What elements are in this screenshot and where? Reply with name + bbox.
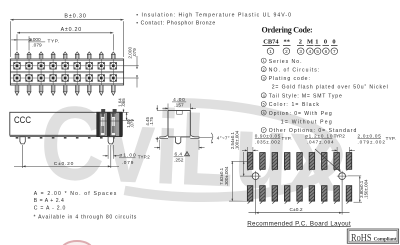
top view pin column 8 (tails and pads) [98, 52, 105, 95]
dim ø1.2±0.10 TYP.2/.047±.004 peg hole dia [305, 133, 345, 172]
PCB layout pads row 1 [247, 153, 351, 170]
svg-text:.035±.002: .035±.002 [255, 139, 280, 144]
top view pin column 3 (tails and pads) [38, 52, 45, 95]
top view pin column 5 (tails and pads) [62, 52, 69, 95]
front view marking CCC [14, 115, 31, 126]
dimension 1.64/.065 contact height [118, 98, 129, 113]
svg-text:B±0.30: B±0.30 [64, 14, 85, 20]
svg-text:NO. of Circuits:: NO. of Circuits: [269, 67, 320, 73]
svg-text:TYP.: TYP. [282, 136, 292, 141]
front view peg right [108, 137, 113, 144]
svg-text:.157: .157 [174, 102, 184, 108]
svg-text:3: 3 [299, 49, 302, 54]
PCB peg hole right [337, 171, 347, 181]
svg-text:4: 4 [309, 49, 312, 54]
svg-text:.079: .079 [32, 42, 42, 48]
dimension 2.000/.079 TYP pitch [11, 36, 59, 50]
svg-text:1: 1 [269, 49, 272, 54]
spec bullet contact [136, 21, 215, 27]
svg-text:.065: .065 [121, 98, 126, 107]
svg-text:7: 7 [333, 49, 336, 54]
svg-text:1: 1 [315, 39, 318, 46]
svg-text:TYP.: TYP. [48, 39, 60, 45]
top view connector body [10, 59, 123, 85]
dimension B±0.30 overall length [10, 14, 123, 57]
svg-text:TYP.2: TYP.2 [138, 155, 150, 160]
red ink stamp arc (cut off at bottom edge) [62, 241, 93, 245]
svg-text:C = A - 2.0: C = A - 2.0 [34, 206, 66, 212]
ordering code string CB74 ** 2 M 1 0 0 [263, 39, 338, 46]
PCB layout pads row 2 [247, 186, 351, 201]
formula B [34, 198, 64, 204]
dim 0.90±0.05/.035±.002 TYP pad width [242, 133, 292, 152]
svg-text:4°~7°: 4°~7° [217, 135, 230, 140]
top view pin column 9 (tails and pads) [110, 52, 117, 95]
svg-text:6: 6 [325, 49, 328, 54]
formula C [34, 206, 66, 212]
draft angle 4°~7° [199, 133, 230, 144]
dim 7.62±0.1/.300±.004 row spacing [219, 161, 248, 201]
svg-text:CB74: CB74 [263, 39, 279, 46]
svg-text:2: 2 [263, 68, 265, 72]
front view solder feet [16, 137, 115, 139]
svg-text:A±0.20: A±0.20 [61, 27, 82, 33]
svg-text:Series No.: Series No. [269, 59, 302, 65]
svg-text:.047±.004: .047±.004 [307, 139, 334, 144]
dimension 4.00/.157 side width [162, 97, 196, 110]
note available circuits [34, 215, 137, 221]
svg-text:C±0.2: C±0.2 [290, 207, 303, 213]
svg-text:B = A + 2.4: B = A + 2.4 [34, 198, 64, 204]
front view peg left [20, 137, 25, 144]
svg-text:Option: 0= With Peg: Option: 0= With Peg [269, 111, 332, 117]
svg-text:M: M [307, 39, 313, 46]
svg-text:0: 0 [324, 39, 327, 46]
side view peg [175, 137, 180, 144]
svg-text:TYP.2: TYP.2 [334, 133, 346, 138]
svg-text:.079: .079 [132, 48, 137, 58]
svg-text:.100±.004: .100±.004 [235, 130, 240, 150]
ordering code title [262, 25, 313, 34]
svg-text:.079: .079 [122, 160, 134, 165]
side view SMT lead left [160, 135, 168, 138]
dim 3.80±0.1/.150±.004 hole-to-pad-end [348, 176, 369, 202]
svg-text:Tail Style: M= SMT Type: Tail Style: M= SMT Type [269, 94, 342, 100]
watermark CviLux logo ellipse ring [124, 101, 339, 202]
dim 2.0±0.05/.079±.002 TYP pad pitch [332, 133, 396, 152]
svg-text:Ordering Code:: Ordering Code: [262, 25, 313, 34]
dimension 2.000/.079 row spacing (right) [124, 47, 139, 88]
top view pin column 6 (tails and pads) [74, 52, 81, 95]
svg-text:* Available in 4 through 80 ci: * Available in 4 through 80 circuits [34, 215, 137, 221]
top view pin column 2 (tails and pads) [26, 52, 33, 95]
svg-text:TYP.: TYP. [386, 136, 396, 141]
svg-text:1: 1 [186, 152, 188, 156]
svg-text:1: 1 [263, 59, 265, 63]
top view row centerlines [10, 66, 123, 78]
svg-text:.175: .175 [149, 117, 154, 126]
svg-text:ø1.2±0.10: ø1.2±0.10 [305, 133, 333, 138]
PCB pad hatch [248, 152, 352, 203]
RoHS Compliant stamp [347, 229, 398, 244]
front view connector body [10, 112, 123, 136]
svg-text:.150±.004: .150±.004 [363, 179, 368, 199]
svg-text:3: 3 [263, 77, 265, 81]
dim C±0.2 hole spacing [249, 181, 350, 215]
dim 2.54±0.1/.100±.004 row-to-hole [230, 130, 252, 176]
svg-text:2.0±0.05: 2.0±0.05 [358, 133, 382, 138]
svg-text:• Insulation: High Temperature: • Insulation: High Temperature Plastic U… [136, 13, 291, 19]
side view body outline [168, 111, 190, 137]
svg-text:CCC: CCC [14, 115, 31, 126]
spec bullet insulation [136, 13, 291, 19]
svg-text:Recommended P.C. Board Layout: Recommended P.C. Board Layout [247, 220, 351, 227]
svg-text:5: 5 [316, 49, 319, 54]
svg-text:.079±.002: .079±.002 [358, 139, 386, 144]
top view pin column 1 (tails and pads) [14, 52, 21, 95]
svg-text:RoHS: RoHS [351, 232, 372, 244]
svg-text:2: 2 [299, 39, 302, 46]
watermark CviLux logo text [38, 84, 341, 214]
svg-text:Color: 1= Black: Color: 1= Black [269, 102, 320, 108]
ordering code circled digits [267, 48, 337, 55]
svg-text:ø1.00: ø1.00 [119, 152, 136, 157]
top view pin column 7 (tails and pads) [86, 52, 93, 95]
svg-text:6: 6 [263, 111, 265, 115]
svg-text:Compliant: Compliant [374, 236, 397, 242]
dimension 1.00/.079 contact depth [122, 112, 134, 127]
svg-text:2: 2 [285, 49, 288, 54]
svg-text:0: 0 [332, 39, 335, 46]
dimension C±0.20 peg spacing [14, 145, 119, 168]
front view contact cluster (right end) [97, 109, 122, 137]
svg-text:0.90±0.05: 0.90±0.05 [255, 133, 281, 138]
svg-text:7: 7 [263, 129, 265, 133]
formula A [34, 191, 117, 197]
svg-text:**: ** [284, 39, 290, 46]
PCB peg hole left [250, 171, 260, 181]
dimension 6.4/.252 base width with rev triangle [154, 140, 204, 164]
svg-text:5: 5 [263, 103, 265, 107]
svg-text:1= Without Peg: 1= Without Peg [281, 120, 332, 126]
svg-text:• Contact: Phosphor Bronze: • Contact: Phosphor Bronze [136, 21, 215, 27]
svg-text:Plating code:: Plating code: [269, 76, 310, 82]
svg-text:C±0.20: C±0.20 [54, 161, 74, 167]
svg-text:4: 4 [263, 94, 265, 98]
svg-text:.300±.004: .300±.004 [224, 166, 229, 186]
PCB layout title [247, 220, 351, 227]
dimension 4.45/.175 side height [145, 105, 167, 142]
svg-text:.079: .079 [129, 119, 134, 128]
svg-text:2= Gold flash plated over 50u”: 2= Gold flash plated over 50u” Nickel [272, 85, 388, 91]
top view pin column 4 (tails and pads) [50, 52, 57, 95]
dimension A±0.20 pin span [17, 27, 113, 50]
ordering code legend list [261, 58, 388, 134]
svg-text:.252: .252 [174, 158, 184, 164]
dimension ø1.00 TYP.2 peg diameter [103, 145, 151, 165]
side view SMT lead right [190, 135, 199, 138]
